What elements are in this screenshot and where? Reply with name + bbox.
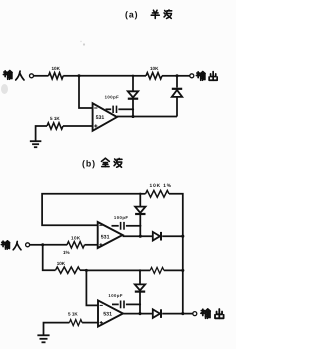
non-inverting input plus mark U1 <box>94 124 97 127</box>
ground (half-wave) <box>30 141 41 147</box>
wire output node to terminal <box>177 75 190 77</box>
op-amp U3 output wire <box>123 313 153 315</box>
wire R8 to A2 non-inverting input <box>82 322 98 324</box>
svg-text:1%: 1% <box>63 250 70 255</box>
non-inverting input plus mark U3 <box>100 321 103 324</box>
wire node X down to A2 inverting input <box>86 270 98 305</box>
wire D6 to output bus junction <box>162 313 183 315</box>
wire D4 to right bus <box>162 235 183 237</box>
diode D3 (clamp A1, pointing down) <box>135 194 145 236</box>
wire R2 to output node <box>162 75 177 77</box>
wire to R7 <box>140 269 150 271</box>
wire R8 left to ground stem <box>44 323 70 335</box>
ground (full-wave) <box>37 335 49 342</box>
compensation capacitor C1 100pF <box>105 94 133 113</box>
op-amp U2 output wire <box>123 235 153 237</box>
junction D5 at node X wire <box>139 269 141 271</box>
wire input junction down to R6 <box>43 245 56 270</box>
node A junction <box>77 74 80 77</box>
wire node X to D5 junction <box>86 269 140 271</box>
junction C2 at D3 branch <box>139 225 141 227</box>
junction D3 at U2 output <box>139 235 142 238</box>
svg-text:5 1K: 5 1K <box>50 116 60 121</box>
resistor R2 10K (feedback) <box>146 66 162 79</box>
wire R7 to right bus <box>164 269 183 271</box>
svg-text:10K: 10K <box>52 66 61 71</box>
wire bus junction to output terminal <box>183 313 193 315</box>
right bus wire down <box>182 236 184 313</box>
wire R4 to op-amp A1 <box>85 244 98 246</box>
svg-text:10K 1%: 10K 1% <box>150 183 172 189</box>
diode D1 (clamp, pointing down) <box>128 76 138 117</box>
resistor R5 10K 1% (feedback) <box>146 183 172 197</box>
op-amp U1 output wire <box>117 116 177 118</box>
svg-text:5 1K: 5 1K <box>68 311 78 316</box>
resistor R8 5.1K to ground <box>68 311 82 325</box>
junction output bus bottom <box>181 312 184 315</box>
input terminal (half-wave) <box>30 74 34 78</box>
wire junction to R4 <box>43 244 67 246</box>
scan speck top <box>80 41 85 46</box>
wire R5 to right bus <box>169 194 183 237</box>
junction right bus at 236 <box>181 235 184 238</box>
output terminal (half-wave) <box>190 74 194 78</box>
wire node A to D1 top <box>79 75 133 77</box>
output node junction <box>175 74 178 77</box>
compensation capacitor C3 100pF <box>108 293 140 309</box>
diode D2 (output, pointing up) <box>172 76 182 117</box>
resistor R1 10K (input) <box>49 66 64 79</box>
op-amp U3 531 (full-wave second) <box>98 300 123 326</box>
junction C1 at D1 branch <box>132 108 134 110</box>
wire R3 to op-amp non-inverting input <box>63 125 93 127</box>
svg-text:100pF: 100pF <box>114 215 129 220</box>
wire input to junction <box>30 244 43 246</box>
resistor R7 (summing) <box>150 267 164 273</box>
svg-text:(a): (a) <box>125 10 138 20</box>
output label 输出 (half-wave) <box>196 72 217 81</box>
resistor R6 10K 1% (to A2) <box>56 250 81 274</box>
junction D1 at output wire <box>131 115 134 118</box>
wire to R5 <box>140 193 145 195</box>
junction D5 at U3 output <box>138 312 141 315</box>
inverting input minus mark U3 <box>100 304 103 306</box>
diode D4 (series, pointing right) <box>153 232 161 241</box>
junction C3 at D5 branch <box>139 303 141 305</box>
compensation capacitor C2 100pF <box>112 215 141 230</box>
diode D6 (series, pointing right) <box>153 309 161 318</box>
svg-text:(b): (b) <box>82 158 96 168</box>
inverting input minus mark U1 <box>94 107 97 109</box>
wire D1 top to R2 <box>133 75 146 77</box>
junction at D1 top <box>132 75 134 77</box>
junction right bus at 270 <box>181 269 184 272</box>
diode D5 (clamp A2, pointing down) <box>135 270 145 313</box>
non-inverting input plus mark U2 <box>99 243 102 246</box>
op-amp U2 531 (full-wave first) <box>98 222 123 248</box>
summing junction node X <box>85 269 88 272</box>
svg-text:100pF: 100pF <box>108 293 123 298</box>
op-amp U1 531 (half-wave) <box>93 103 117 131</box>
wire R6 to summing junction <box>80 269 86 271</box>
input terminal (full-wave) <box>26 243 30 247</box>
output terminal (full-wave) <box>193 312 197 316</box>
wire input to R1 <box>34 75 49 77</box>
svg-text:100pF: 100pF <box>105 94 120 99</box>
input label 输入 (half-wave) <box>3 71 24 80</box>
svg-text:531: 531 <box>96 115 105 121</box>
title (a) 半波 <box>125 10 172 20</box>
svg-text:531: 531 <box>101 235 110 241</box>
wire node A down to inverting input <box>79 76 93 108</box>
svg-text:10K: 10K <box>57 261 66 266</box>
wire R1 to node A <box>63 75 79 77</box>
title (b) 全波 <box>82 158 122 168</box>
svg-text:10K: 10K <box>71 235 81 240</box>
junction D3 at top wire <box>139 193 141 195</box>
wire R3 left to ground stem <box>36 126 47 141</box>
resistor R3 5.1K to ground <box>47 116 63 129</box>
svg-text:531: 531 <box>103 312 112 318</box>
scan smudge artifact left edge <box>1 84 8 94</box>
feedback wire to A1 inverting input <box>42 194 140 226</box>
inverting input minus mark U2 <box>99 224 102 226</box>
resistor R4 10K (to A1 input) <box>67 235 85 248</box>
input label 输入 (full-wave) <box>1 241 21 250</box>
svg-text:10K: 10K <box>150 66 159 71</box>
input junction node <box>41 243 44 246</box>
output label 输出 (full-wave) <box>201 309 224 318</box>
